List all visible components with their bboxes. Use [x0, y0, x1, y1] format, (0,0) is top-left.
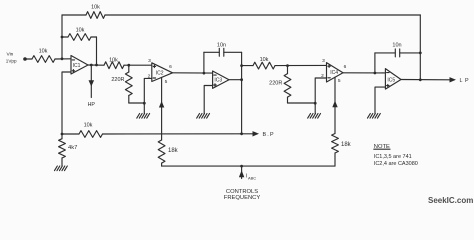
- resistor 4k7 (IC1 + input to ground): [61, 134, 63, 139]
- wire: IC2 pin 2 to ground: [144, 78, 152, 103]
- wire: LP output rail: [401, 79, 450, 81]
- svg-text:Vin: Vin: [7, 51, 14, 57]
- wire: IC4 pin 2 to ground: [315, 78, 326, 114]
- svg-text:CONTROLS: CONTROLS: [226, 189, 258, 195]
- node: IC3 output junction: [240, 78, 243, 81]
- svg-text:IC2: IC2: [156, 71, 164, 77]
- svg-text:6: 6: [344, 64, 347, 70]
- arrow: BP output: [253, 131, 260, 136]
- input terminal Vin: [23, 57, 27, 61]
- resistor 18k (IC2 bias): [158, 140, 165, 163]
- wire: IC3 non-inverting input to ground: [204, 86, 212, 114]
- resistor 10k (BP feedback): [79, 131, 103, 138]
- node: feedback tap junction: [61, 36, 64, 39]
- op-amp IC5 (741): [385, 69, 401, 90]
- IC2 minus mark: [153, 77, 155, 79]
- svg-text:18k: 18k: [168, 148, 179, 154]
- wire: cap to IC3 output vertical: [241, 52, 243, 134]
- svg-text:220R: 220R: [111, 77, 124, 83]
- IC4 plus mark: [328, 65, 330, 67]
- svg-text:SeekIC.com: SeekIC.com: [428, 196, 473, 205]
- svg-text:IC5: IC5: [387, 77, 395, 83]
- node: pin2/ground junction (right): [314, 102, 317, 105]
- IC2 plus mark: [153, 65, 155, 67]
- node: BP-feedback node: [61, 133, 64, 136]
- arrow: HP (down): [89, 80, 95, 86]
- wire: feedback resistor to IC1 output: [96, 37, 98, 65]
- OTA IC2 (CA3080): [152, 63, 173, 82]
- ground (IC3 + input): [197, 114, 200, 119]
- svg-text:IC2,4 are CA3080: IC2,4 are CA3080: [374, 161, 418, 167]
- svg-text:HP: HP: [88, 102, 96, 108]
- wire: 220R bottom to IC2 pin 2 ground node: [129, 102, 145, 104]
- svg-text:220R: 220R: [269, 80, 282, 86]
- wire: I_ABC control rail: [162, 165, 335, 167]
- resistor 10k (IC1 feedback): [62, 36, 68, 38]
- svg-text:10k: 10k: [84, 122, 93, 128]
- wire: cap node down to LP rail: [419, 53, 421, 80]
- wire: BP feedback rail: [62, 133, 79, 135]
- IC1 minus mark: [72, 59, 74, 61]
- ground (IC4 pin 2 / 220R): [308, 114, 311, 119]
- wire: IC3 output: [229, 79, 242, 81]
- resistor 18k (IC4 bias): [332, 134, 339, 154]
- svg-text:5: 5: [165, 79, 168, 85]
- svg-text:10k: 10k: [39, 49, 48, 55]
- svg-text:3: 3: [322, 58, 325, 64]
- wire: IC2 output to IC3 inverting input: [173, 72, 213, 74]
- wire: 18k to I_ABC rail: [161, 163, 163, 166]
- svg-text:18k: 18k: [341, 142, 352, 148]
- svg-text:B.P: B.P: [263, 132, 275, 138]
- svg-text:10n: 10n: [217, 42, 226, 48]
- resistor 10k (IC1 out to IC2): [104, 62, 124, 69]
- capacitor 10n (IC3 integrator): [203, 52, 205, 73]
- wire: IC4 output to IC5 inverting input: [343, 72, 385, 74]
- svg-text:I: I: [246, 174, 247, 180]
- svg-text:L P: L P: [460, 78, 470, 84]
- svg-text:5: 5: [338, 78, 341, 84]
- resistor 10k (input): [32, 56, 55, 63]
- wire: 220R bottom to IC4 pin 2 ground node: [288, 102, 316, 104]
- IC5 minus mark: [387, 72, 389, 74]
- svg-text:4k7: 4k7: [68, 145, 77, 151]
- svg-text:ABC: ABC: [248, 175, 256, 180]
- wire: 18k to I_ABC rail: [334, 153, 336, 166]
- svg-text:10k: 10k: [91, 5, 100, 11]
- node: HP tap: [90, 64, 93, 67]
- svg-text:IC1,3,5 are 741: IC1,3,5 are 741: [374, 154, 412, 160]
- svg-text:10k: 10k: [260, 57, 269, 63]
- op-amp IC1 (741): [71, 56, 88, 75]
- wire: IC1 output rail to IC2 pin 3: [88, 64, 104, 66]
- node: 220R tap: [127, 64, 130, 67]
- svg-text:IC3: IC3: [214, 78, 222, 84]
- wire: HP output stub: [90, 65, 92, 98]
- wire: input resistor to IC1 inverting input: [55, 58, 71, 60]
- IC3 minus mark: [214, 74, 216, 76]
- node: feedback return junction: [95, 64, 98, 67]
- resistor 220R (IC2 input divider): [128, 65, 130, 72]
- node: top feedback / cap junction: [419, 52, 422, 55]
- wire: top LP->IC1 feedback rail: [62, 14, 86, 16]
- node: BP junction: [240, 132, 243, 135]
- node: pin2/ground junction: [143, 102, 146, 105]
- resistor 10k (IC3 out to IC4): [253, 62, 275, 69]
- arrow: bias current into IC2 pin 5 (up): [159, 101, 164, 108]
- wire: IC1 inverting-node vertical: [61, 15, 63, 59]
- ground (IC2 pin 2 / 220R): [137, 114, 140, 119]
- svg-text:1Vpp: 1Vpp: [6, 59, 17, 64]
- wire: Vin to input resistor: [25, 58, 32, 60]
- node: IC3 input / integrator cap tap: [203, 72, 206, 75]
- arrow: LP output: [450, 77, 457, 82]
- svg-text:10k: 10k: [76, 27, 85, 33]
- svg-text:IC1: IC1: [73, 63, 81, 69]
- wire: I_ABC stub: [241, 166, 243, 178]
- node: 220R tap (right): [286, 64, 289, 67]
- node: 10k tap to IC4: [240, 64, 243, 67]
- svg-text:10n: 10n: [392, 43, 401, 49]
- svg-text:3: 3: [148, 58, 151, 64]
- IC3 plus mark: [214, 84, 216, 86]
- node: IC5 input / integrator cap tap: [374, 72, 377, 75]
- svg-text:10k: 10k: [109, 57, 118, 63]
- wire: IC3 out rail to IC4 pin 3: [242, 65, 253, 67]
- wire: IC1 non-inverting input to BP-feedback node: [62, 72, 71, 134]
- arrow: I_ABC (up): [239, 170, 244, 177]
- IC1 plus mark: [72, 70, 74, 72]
- wire: IC5 non-inverting input to ground: [375, 87, 385, 113]
- resistor 220R (IC4 input divider): [287, 66, 289, 74]
- op-amp IC3 (741): [213, 71, 229, 88]
- capacitor 10n (IC5 integrator): [374, 53, 376, 73]
- wire: IC4 pin 5 bias line: [334, 77, 336, 133]
- wire: IC2 pin 5 bias line: [161, 77, 163, 140]
- ground (4k7): [55, 166, 58, 171]
- OTA IC4 (CA3080): [327, 63, 344, 82]
- node: LP junction: [419, 78, 422, 81]
- resistor 10k (top feedback, LP to IC1 input): [86, 12, 105, 19]
- arrow: bias current into IC4 pin 5 (up): [332, 101, 337, 108]
- svg-text:FREQUENCY: FREQUENCY: [224, 195, 261, 201]
- IC4 minus mark: [328, 77, 330, 79]
- node: IC1 inverting input junction: [61, 57, 64, 60]
- svg-text:IC4: IC4: [330, 70, 338, 76]
- svg-text:6: 6: [169, 64, 172, 70]
- wire: right vertical of top feedback down to 10n cap node: [419, 15, 421, 53]
- ground (IC5 + input): [368, 114, 371, 119]
- IC5 plus mark: [387, 85, 389, 87]
- node: I_ABC injection junction: [240, 165, 243, 168]
